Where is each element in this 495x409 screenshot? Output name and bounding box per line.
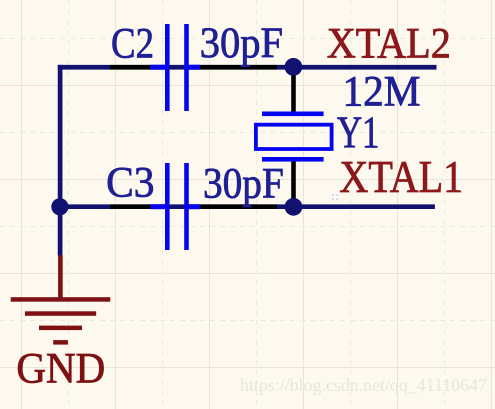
svg-text:XTAL1: XTAL1 [339, 151, 463, 202]
ground GND power symbol stem [58, 255, 63, 300]
svg-text:GND: GND [16, 346, 105, 393]
svg-text:C3: C3 [106, 159, 154, 206]
capacitor C3 right plate [184, 163, 189, 250]
capacitor C2 right plate [184, 24, 189, 111]
pin: C2 pin 2 (right, black) [200, 65, 277, 70]
crystal Y1 top electrode plate [262, 112, 324, 117]
svg-text:30pF: 30pF [203, 161, 284, 208]
pin: C3 pin 1 (left, black) [110, 204, 151, 209]
ground GND bar 2 [25, 311, 96, 316]
ground GND bar 4 [53, 340, 68, 345]
svg-text:30pF: 30pF [200, 20, 283, 67]
pin: Y1 pin 2 (bottom, black) [291, 161, 296, 206]
ground GND bar 1 [11, 297, 111, 302]
junction node: GND branch junction [51, 198, 68, 215]
svg-text:https://blog.csdn.net/qq_41110: https://blog.csdn.net/qq_41110647 [240, 375, 487, 395]
crystal Y1 bottom electrode plate [262, 157, 324, 162]
wire: left vertical wire from top corner to GND [58, 65, 63, 256]
capacitor C3 left plate [165, 163, 170, 250]
capacitor C3 right lead (blue) [189, 204, 200, 209]
pin: Y1 pin 1 (top, black) [291, 67, 296, 112]
node: crystal origin snap marker [332, 194, 338, 200]
capacitor C2 left plate [165, 24, 170, 111]
junction node: XTAL2 net junction [285, 58, 303, 76]
pin: C3 pin 2 (right, black) [200, 204, 277, 209]
ground GND bar 3 [39, 326, 82, 331]
svg-text:C2: C2 [111, 20, 154, 67]
svg-text:XTAL2: XTAL2 [327, 21, 451, 68]
crystal Y1 body rectangle [256, 125, 332, 149]
wire: bottom horizontal XTAL1 net wire [59, 204, 435, 209]
capacitor C2 right lead (blue) [189, 65, 200, 70]
capacitor C2 left lead (blue) [150, 65, 165, 70]
pin: C2 pin 1 (left, black) [110, 65, 151, 70]
junction node: XTAL1 net junction [285, 198, 303, 216]
wire: top horizontal XTAL2 net wire [58, 65, 437, 70]
capacitor C3 left lead (blue) [150, 204, 165, 209]
